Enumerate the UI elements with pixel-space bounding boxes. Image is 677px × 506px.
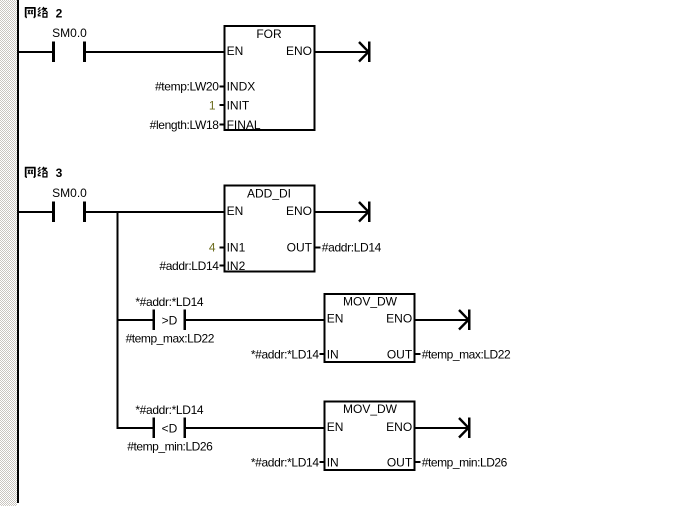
block MOV_DW 2 body xyxy=(324,402,414,470)
svg-text:EN: EN xyxy=(227,44,244,58)
svg-text:EN: EN xyxy=(227,204,244,218)
svg-text:INIT: INIT xyxy=(227,99,250,113)
wire: branch corner to <D contact xyxy=(117,427,153,429)
wire: ADD_DI ENO output xyxy=(315,211,369,213)
comparison contact <D right bar xyxy=(184,418,187,438)
svg-text:4: 4 xyxy=(209,241,216,255)
svg-text:*#addr:*LD14: *#addr:*LD14 xyxy=(135,403,204,417)
block MOV_DW 1 body xyxy=(324,294,414,362)
svg-text:#addr:LD14: #addr:LD14 xyxy=(159,259,219,273)
svg-text:IN: IN xyxy=(327,348,339,362)
wire: contact to ADD_DI EN xyxy=(86,211,225,213)
arrow terminator (ADD_DI rung) xyxy=(359,201,371,222)
contact SM0.0 left bar (network 3) xyxy=(52,202,55,222)
svg-text:3: 3 xyxy=(56,166,63,180)
svg-text:ENO: ENO xyxy=(386,420,412,434)
comparison contact <D left bar xyxy=(153,418,156,438)
svg-text:EN: EN xyxy=(327,420,344,434)
network 2 title 网络 2 xyxy=(25,6,63,20)
svg-text:SM0.0: SM0.0 xyxy=(52,26,87,40)
wire: >D contact to MOV_DW EN xyxy=(186,319,324,321)
svg-text:<D: <D xyxy=(162,422,178,436)
left margin dither strip xyxy=(0,0,17,506)
svg-text:MOV_DW: MOV_DW xyxy=(343,294,398,308)
operand *#addr:*LD14 (MOV2 IN) with stub xyxy=(251,456,325,470)
arrow terminator (network 2) xyxy=(359,41,371,62)
block FOR body xyxy=(224,26,314,130)
wire: MOV_DW 2 ENO output xyxy=(415,427,469,429)
contact SM0.0 right bar (network 3) xyxy=(83,202,86,222)
svg-text:ADD_DI: ADD_DI xyxy=(247,186,291,200)
svg-text:OUT: OUT xyxy=(287,241,313,255)
wire: rail to contact (rung 2) xyxy=(19,211,52,213)
wire: <D contact to MOV_DW 2 EN xyxy=(186,427,324,429)
svg-text:ENO: ENO xyxy=(286,204,312,218)
operand #addr:LD14 (IN2) with stub xyxy=(159,259,224,273)
operand #length:LW18 with stub xyxy=(150,118,225,132)
svg-text:#addr:LD14: #addr:LD14 xyxy=(322,241,382,255)
svg-text:ENO: ENO xyxy=(286,44,312,58)
operand #temp:LW20 with stub xyxy=(155,80,224,94)
svg-text:ENO: ENO xyxy=(386,312,412,326)
svg-text:*#addr:*LD14: *#addr:*LD14 xyxy=(251,348,320,362)
operand #temp_min:LD26 (MOV2 OUT) with stub xyxy=(415,456,507,470)
svg-text:1: 1 xyxy=(209,99,216,113)
svg-text:MOV_DW: MOV_DW xyxy=(343,402,398,416)
svg-text:#temp_max:LD22: #temp_max:LD22 xyxy=(126,332,215,346)
svg-text:*#addr:*LD14: *#addr:*LD14 xyxy=(135,295,204,309)
svg-text:#temp_min:LD26: #temp_min:LD26 xyxy=(422,456,508,470)
svg-text:IN2: IN2 xyxy=(227,259,246,273)
svg-text:#temp:LW20: #temp:LW20 xyxy=(155,80,219,94)
operand constant 1 with stub xyxy=(209,99,224,113)
svg-text:FINAL: FINAL xyxy=(227,118,261,132)
comparison contact >D right bar xyxy=(184,310,187,330)
svg-text:#temp_min:LD26: #temp_min:LD26 xyxy=(127,440,213,454)
operand #temp_max:LD22 (MOV1 OUT) with stub xyxy=(415,347,511,361)
block ADD_DI body xyxy=(224,186,314,272)
contact SM0.0 left bar xyxy=(52,42,55,62)
svg-text:FOR: FOR xyxy=(256,27,282,41)
arrow terminator (MOV_DW 1) xyxy=(459,309,471,330)
wire: branch vertical xyxy=(116,211,118,429)
svg-text:INDX: INDX xyxy=(227,80,256,94)
svg-text:IN: IN xyxy=(327,456,339,470)
operand constant 4 with stub xyxy=(209,241,224,255)
wire: contact to FOR EN xyxy=(86,51,224,53)
wire: MOV_DW 1 ENO output xyxy=(415,319,469,321)
svg-text:SM0.0: SM0.0 xyxy=(52,186,87,200)
svg-text:EN: EN xyxy=(327,312,344,326)
svg-text:>D: >D xyxy=(162,314,178,328)
svg-text:#temp_max:LD22: #temp_max:LD22 xyxy=(422,347,511,361)
wire: rail to contact (rung 1) xyxy=(19,51,52,53)
network 3 title 网络 3 xyxy=(25,166,63,180)
operand #addr:LD14 (OUT) with stub xyxy=(315,241,381,255)
svg-text:OUT: OUT xyxy=(387,456,413,470)
wire: FOR ENO output xyxy=(315,51,369,53)
svg-text:#length:LW18: #length:LW18 xyxy=(150,118,220,132)
svg-text:2: 2 xyxy=(56,6,63,20)
operand *#addr:*LD14 (MOV1 IN) with stub xyxy=(251,348,325,362)
arrow terminator (MOV_DW 2) xyxy=(459,417,471,438)
left power rail xyxy=(17,0,19,503)
svg-text:*#addr:*LD14: *#addr:*LD14 xyxy=(251,456,320,470)
svg-text:IN1: IN1 xyxy=(227,241,246,255)
svg-text:OUT: OUT xyxy=(387,348,413,362)
comparison contact >D left bar xyxy=(153,310,156,330)
contact SM0.0 right bar xyxy=(83,42,86,62)
wire: branch to >D contact xyxy=(117,319,153,321)
